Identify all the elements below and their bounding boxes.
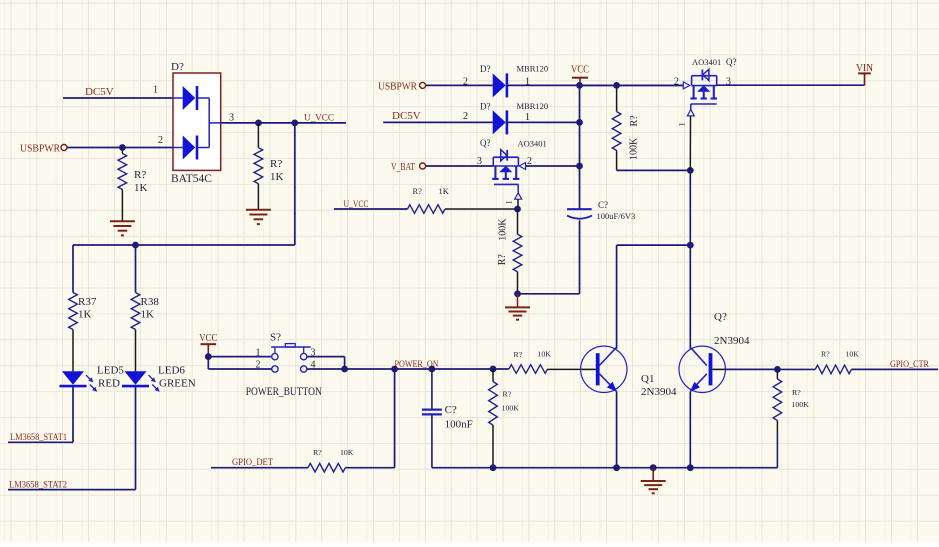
svg-text:R?: R?: [134, 169, 146, 181]
svg-text:2N3904: 2N3904: [714, 335, 750, 347]
wire U_VCC to gate resistor: [334, 208, 408, 210]
diode D? MBR120 (bottom): [493, 110, 507, 134]
node Q? base / R network: [774, 366, 781, 373]
wire VCC column: [579, 85, 581, 209]
svg-text:LM3658_STAT2: LM3658_STAT2: [9, 480, 67, 490]
node gate column / collector link: [687, 242, 694, 249]
ground (mid): [505, 294, 530, 320]
wire GPIO_DET: [211, 467, 308, 469]
pin 2 arrow (mid AO3401): [519, 163, 525, 170]
svg-text:R?: R?: [497, 254, 508, 266]
svg-text:1K: 1K: [134, 182, 148, 194]
svg-text:D?: D?: [480, 64, 491, 74]
wire LED5 to LM3658_STAT1: [8, 387, 73, 442]
node rail / Q1 emitter: [613, 464, 620, 471]
wire ground rail: [432, 467, 778, 469]
svg-text:Q?: Q?: [480, 138, 491, 148]
wire D? pin3 to U_VCC: [221, 122, 346, 124]
node VCC column / DC5V diode: [576, 119, 583, 126]
transistor Q1 2N3904: [581, 346, 627, 392]
ground (rail): [641, 468, 666, 494]
svg-text:Q?: Q?: [726, 57, 737, 67]
svg-text:1: 1: [677, 122, 687, 126]
svg-text:BAT54C: BAT54C: [171, 173, 212, 185]
svg-text:1: 1: [256, 347, 261, 358]
wire VCC to Q? pin 2: [580, 84, 684, 86]
port USBPWR: [20, 143, 67, 155]
svg-text:100K: 100K: [629, 137, 640, 160]
svg-text:C?: C?: [445, 404, 457, 416]
svg-text:100K: 100K: [498, 218, 509, 241]
svg-text:Q1: Q1: [641, 373, 654, 385]
wire cap bottom to ground node: [518, 220, 580, 293]
node pin3 / down-wire: [291, 120, 298, 127]
svg-text:10K: 10K: [846, 350, 860, 359]
svg-text:R?: R?: [413, 186, 423, 196]
svg-text:1K: 1K: [439, 186, 450, 196]
svg-text:R?: R?: [514, 350, 523, 359]
wire switch pins 3,4 join: [307, 357, 345, 369]
node gate of mid AO3401: [514, 206, 521, 213]
wire GPIO_CTR: [851, 368, 938, 370]
diode D? BAT54C body: [173, 73, 221, 170]
svg-text:POWER_BUTTON: POWER_BUTTON: [246, 386, 323, 398]
power port VCC (top): [571, 65, 589, 86]
node VCC / R? 100K: [613, 82, 620, 89]
wire to R38: [135, 245, 137, 293]
pin 2 arrow (right AO3401): [683, 82, 689, 89]
svg-text:100K: 100K: [502, 404, 520, 413]
resistor R? 10K (GPIO_CTR): [777, 365, 851, 374]
svg-text:DC5V: DC5V: [392, 110, 421, 122]
switch S? POWER_BUTTON: [271, 344, 311, 373]
svg-text:2: 2: [158, 135, 163, 146]
svg-text:10K: 10K: [340, 448, 354, 457]
wire DC5V to MBR120: [383, 121, 493, 123]
node VCC column / V_BAT row: [576, 163, 583, 170]
svg-text:LM3658_STAT1: LM3658_STAT1: [10, 433, 67, 443]
node POWER_ON / R? 100K: [490, 366, 497, 373]
wire LED6 to LM3658_STAT2: [8, 387, 136, 490]
resistor R? 100K (gate pulldown): [513, 209, 522, 294]
wire POWER_ON branch down: [394, 369, 396, 468]
svg-text:MBR120: MBR120: [517, 64, 549, 74]
wire gate column down: [689, 170, 691, 348]
node VCC column top: [576, 82, 583, 89]
svg-text:R?: R?: [821, 350, 830, 359]
svg-text:3: 3: [477, 156, 482, 167]
node gate column / R?: [687, 167, 694, 174]
resistor R? 100K (VCC to gate node): [612, 85, 621, 170]
wire Q? emitter to rail: [689, 392, 691, 468]
svg-text:3: 3: [229, 113, 234, 124]
svg-text:MBR120: MBR120: [517, 101, 549, 111]
svg-text:2N3904: 2N3904: [641, 386, 677, 398]
svg-text:100nF: 100nF: [445, 419, 473, 431]
node rail / ground: [650, 464, 657, 471]
resistor R? 100K (Q? base pulldown): [773, 369, 782, 467]
svg-text:1K: 1K: [270, 171, 284, 183]
BAT54C bottom diode: [173, 136, 209, 160]
node rail / Q? emitter: [687, 464, 694, 471]
svg-text:GPIO_DET: GPIO_DET: [232, 457, 273, 467]
node mid ground junction: [514, 290, 521, 297]
svg-text:1K: 1K: [141, 309, 155, 321]
svg-text:R38: R38: [141, 296, 160, 308]
resistor R? 1K (U_VCC pulldown): [254, 123, 263, 209]
svg-text:LED6: LED6: [158, 365, 185, 377]
wire to R37: [72, 245, 74, 293]
svg-text:1: 1: [153, 85, 158, 96]
LED5 RED: [60, 371, 98, 392]
wire USBPWR to D? pin 2: [67, 147, 173, 149]
svg-text:R?: R?: [629, 115, 640, 127]
svg-text:LED5: LED5: [97, 365, 124, 377]
svg-text:1: 1: [504, 200, 514, 204]
resistor R? 10K (GPIO_DET): [308, 463, 395, 472]
wire V_BAT to Q? pin 3: [426, 165, 493, 167]
ground (left 1K): [110, 220, 135, 222]
svg-text:USBPWR: USBPWR: [20, 143, 61, 155]
resistor R? 10K (Q1 base): [509, 365, 582, 374]
svg-text:VCC: VCC: [199, 333, 217, 344]
svg-text:GREEN: GREEN: [159, 378, 196, 390]
wire Q1 collector link: [617, 245, 691, 349]
resistor R37 1K: [69, 293, 78, 372]
wire POWER_ON: [345, 368, 509, 370]
svg-text:2: 2: [463, 111, 468, 122]
svg-text:100K: 100K: [792, 400, 810, 409]
BAT54C top diode: [173, 86, 209, 110]
svg-text:USBPWR: USBPWR: [378, 80, 418, 92]
svg-text:R?: R?: [313, 448, 322, 457]
svg-text:D?: D?: [480, 102, 491, 112]
capacitor C? 100nF: [422, 369, 442, 468]
svg-text:S?: S?: [270, 332, 281, 344]
svg-text:R?: R?: [792, 388, 801, 397]
node POWER_ON / C?: [429, 366, 436, 373]
BAT54C common cathode join: [209, 98, 221, 148]
wire Q1 emitter to rail: [616, 392, 618, 468]
svg-text:VCC: VCC: [571, 65, 589, 76]
node at pin3 / R? top: [255, 120, 262, 127]
wire MBR120 bottom to VCC column: [508, 121, 580, 123]
svg-text:AO3401: AO3401: [518, 139, 547, 149]
svg-text:100uF/6V3: 100uF/6V3: [597, 211, 636, 221]
node LED branch split: [132, 242, 139, 249]
wire R? bottom to gate column: [617, 169, 691, 171]
port USBPWR (mid): [378, 80, 426, 92]
wire MBR120 top to VCC node: [508, 84, 683, 86]
node POWER_ON / GPIO_DET branch: [391, 366, 398, 373]
svg-text:U_VCC: U_VCC: [304, 113, 334, 123]
transistor Q? AO3401 (mid PMOS): [492, 150, 522, 209]
svg-text:D?: D?: [171, 61, 184, 73]
wire Q? base to node: [725, 368, 777, 370]
power port VCC (button): [199, 333, 217, 356]
transistor Q? AO3401 (right PMOS): [687, 69, 717, 170]
wire USBPWR to MBR120: [426, 84, 493, 86]
node switch output: [341, 366, 348, 373]
capacitor C? 100uF/6V3: [567, 209, 592, 219]
wire DC5V to D? pin 1: [63, 97, 173, 99]
svg-text:R?: R?: [503, 390, 512, 399]
wire Q? pin3 to VIN: [716, 84, 865, 86]
node USBPWR / R?: [119, 144, 126, 151]
svg-text:RED: RED: [98, 378, 120, 390]
wire VCC to switch pins 1 and 2: [208, 357, 271, 369]
resistor R? 100K (POWER_ON pulldown): [489, 369, 498, 468]
resistor R? 1K (gate series): [408, 205, 518, 214]
LED6 GREEN: [122, 371, 160, 392]
svg-text:VIN: VIN: [856, 63, 873, 74]
svg-text:2: 2: [674, 76, 679, 87]
wire U_VCC down and across to LED branch: [73, 123, 295, 245]
transistor Q? 2N3904 (right): [679, 346, 725, 392]
resistor R38 1K: [131, 293, 140, 372]
svg-text:10K: 10K: [538, 350, 552, 359]
svg-text:V_BAT: V_BAT: [391, 161, 415, 173]
svg-text:C?: C?: [598, 200, 608, 210]
node rail / R? 100K: [490, 464, 497, 471]
svg-text:R?: R?: [270, 158, 282, 170]
svg-text:R37: R37: [78, 296, 97, 308]
node VCC / switch pin1: [205, 353, 212, 360]
svg-text:AO3401: AO3401: [692, 57, 721, 67]
svg-text:1: 1: [525, 112, 530, 123]
diode D? MBR120 (top): [493, 73, 507, 97]
svg-text:2: 2: [256, 360, 261, 371]
resistor R? 1K (USBPWR pulldown): [118, 148, 127, 221]
svg-text:2: 2: [463, 76, 468, 87]
svg-text:DC5V: DC5V: [85, 86, 114, 98]
svg-text:1K: 1K: [78, 309, 92, 321]
svg-text:U_VCC: U_VCC: [344, 199, 369, 209]
port V_BAT: [391, 161, 426, 173]
svg-text:GPIO_CTR: GPIO_CTR: [890, 359, 929, 369]
svg-text:Q?: Q?: [714, 311, 727, 323]
wire Q? pin2 to VCC column: [526, 165, 580, 167]
ground (right 1K): [246, 209, 271, 211]
power port VIN: [856, 63, 873, 85]
